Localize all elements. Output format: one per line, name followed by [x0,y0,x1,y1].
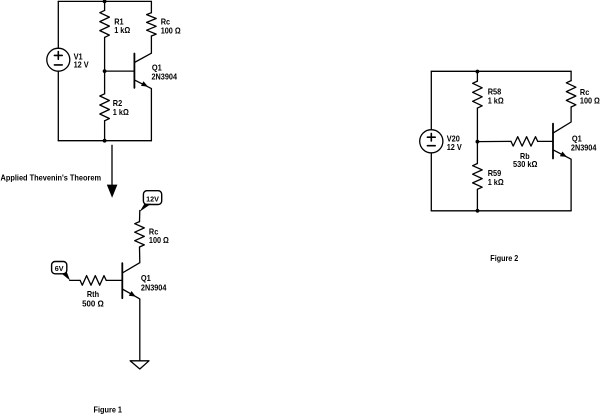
transistor Q1 (fig1) bar [121,263,123,298]
wire: R59 to bottom node [476,189,478,211]
wire: top node to R1 [104,1,106,10]
svg-text:1 kΩ: 1 kΩ [488,96,504,106]
wire: Rth to Q1 base (fig1) [106,279,122,281]
resistor Rb [511,137,538,146]
svg-text:100 Ω: 100 Ω [580,96,600,106]
transistor Q1 (fig2) bar [552,124,554,159]
svg-text:1 kΩ: 1 kΩ [113,107,129,117]
wire: Rc to collector corner [134,36,151,63]
node: circuit1 top junction [103,0,107,3]
svg-text:2N3904: 2N3904 [571,143,597,153]
wire: base wire to Q1 [105,70,135,72]
voltage source V1 [47,48,70,71]
svg-text:1 kΩ: 1 kΩ [114,25,130,35]
Q1 emitter arrow (fig1) [129,291,136,297]
wire: top node to R58 [476,72,478,82]
Q1 emitter arrow (fig2) [560,152,567,157]
ground [130,361,149,369]
label 12V callout tail [140,204,152,212]
svg-text:Rth: Rth [87,289,99,299]
wire: circuit1 left rail lower (V1 to bottom) [57,71,59,141]
wire: Q1 emitter (fig1) [122,289,140,361]
svg-text:Figure 1: Figure 1 [94,405,123,414]
wire: 6V to Rth [70,279,80,281]
wire: 12V to Rc (fig1) [139,211,141,222]
label 6V callout box [52,262,67,274]
resistor Rth [80,276,106,286]
wire: base node to R2 [104,71,106,94]
svg-text:100 Ω: 100 Ω [149,235,169,245]
resistor Rc (fig1) [135,222,145,247]
node: circuit1 base junction [103,69,107,73]
wire: circuit1 left rail upper (top to V1) [57,1,59,48]
wire: mid node to Rb [477,140,511,142]
wire: R2 to bottom node [104,121,106,141]
wire: circuit1 top rail [58,0,151,2]
svg-text:Applied Thevenin's Theorem: Applied Thevenin's Theorem [1,173,102,183]
svg-text:12V: 12V [146,195,159,204]
svg-text:2N3904: 2N3904 [152,72,178,82]
node: fig2 bottom junction [476,209,480,213]
svg-text:2N3904: 2N3904 [141,283,167,293]
svg-text:500 Ω: 500 Ω [82,299,104,309]
wire: Rb to Q1 base (fig2) [538,140,553,142]
svg-text:1 kΩ: 1 kΩ [488,177,504,187]
resistor Rc (fig2) [566,81,576,107]
wire: Q1 emitter [134,80,151,141]
resistor R2 [100,94,110,121]
wire: fig2 bottom rail [431,210,571,212]
wire: circuit1 bottom rail [58,140,151,142]
arrow: Thevenin transform arrow [111,145,113,186]
resistor R58 [473,81,483,108]
svg-text:6V: 6V [55,264,64,273]
label 12V callout box [143,191,161,205]
label 6V callout tail [62,272,70,280]
voltage source V20 [420,130,443,153]
svg-text:530 kΩ: 530 kΩ [513,159,538,169]
wire: fig2 left rail lower [430,153,432,211]
wire: Rc top to rail corner (fig2) [570,71,572,80]
svg-text:100 Ω: 100 Ω [161,25,181,35]
svg-text:12 V: 12 V [74,60,89,70]
wire: top rail corner down to Rc [150,1,152,12]
transistor Q1 (circuit1) bar [133,54,135,88]
node: fig2 mid junction [476,140,480,144]
svg-text:Figure 2: Figure 2 [490,253,518,263]
wire: Q1 emitter (fig2) [553,150,571,211]
resistor Rc (circuit1) [147,13,157,36]
wire: Rc to collector corner (fig1) [122,247,140,273]
wire: fig2 left rail upper [430,71,432,130]
Q1 emitter arrow [141,81,148,86]
node: fig2 top junction [476,70,480,74]
resistor R59 [473,164,483,190]
node: circuit1 bottom junction [103,139,107,143]
wire: fig2 top rail [431,70,571,72]
svg-text:12 V: 12 V [447,142,462,152]
wire: mid node to R59 [476,142,478,164]
wire: R58 to mid node [476,108,478,142]
resistor R1 [100,10,110,37]
svg-text:Q1: Q1 [141,273,151,283]
wire: R1 to base node [104,37,106,71]
wire: Q1 collector (fig2) [553,107,571,133]
